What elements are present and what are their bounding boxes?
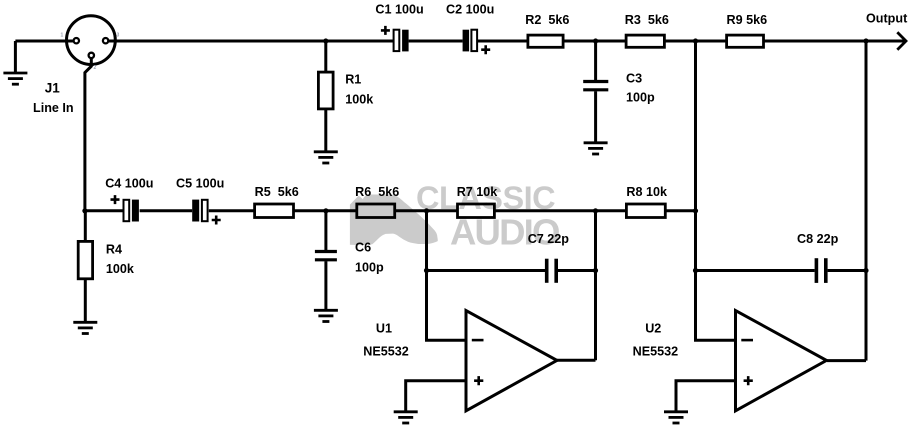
svg-text:1: 1 [61, 33, 64, 39]
svg-text:R5 5k6: R5 5k6 [255, 185, 299, 199]
svg-text:Line In: Line In [33, 101, 74, 115]
svg-text:NE5532: NE5532 [633, 345, 679, 359]
svg-text:NE5532: NE5532 [363, 344, 409, 358]
svg-text:J1: J1 [45, 80, 61, 95]
svg-text:R1: R1 [345, 73, 361, 87]
svg-text:C6: C6 [355, 241, 371, 255]
svg-text:U1: U1 [376, 322, 392, 336]
svg-text:2: 2 [94, 65, 97, 71]
svg-text:C8 22p: C8 22p [797, 232, 839, 246]
svg-text:C2 100u: C2 100u [446, 2, 494, 16]
svg-text:100k: 100k [345, 93, 374, 107]
svg-text:C7 22p: C7 22p [528, 232, 570, 246]
svg-text:U2: U2 [645, 322, 661, 336]
svg-text:C3: C3 [626, 71, 642, 85]
svg-text:C1 100u: C1 100u [375, 2, 423, 16]
svg-text:R6 5k6: R6 5k6 [355, 185, 399, 199]
svg-text:R4: R4 [106, 243, 122, 257]
svg-text:C4 100u: C4 100u [105, 177, 153, 191]
svg-text:100k: 100k [106, 262, 135, 276]
svg-text:R8 10k: R8 10k [626, 185, 668, 199]
svg-text:R9 5k6: R9 5k6 [727, 13, 768, 27]
svg-text:3: 3 [117, 33, 120, 39]
svg-text:C5 100u: C5 100u [176, 177, 224, 191]
svg-text:R2 5k6: R2 5k6 [525, 13, 569, 27]
svg-text:100p: 100p [355, 261, 384, 275]
svg-text:R3 5k6: R3 5k6 [625, 13, 669, 27]
svg-text:R7 10k: R7 10k [457, 185, 499, 199]
svg-text:Output: Output [866, 11, 908, 25]
svg-text:100p: 100p [626, 91, 655, 105]
